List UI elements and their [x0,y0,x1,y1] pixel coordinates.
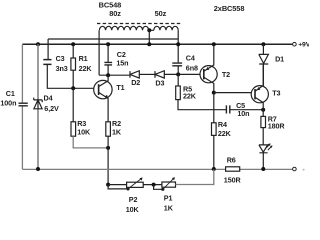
wire +9V top bus [22,43,292,45]
node R4 P1 bottom bus [212,167,216,171]
svg-text:T3: T3 [272,89,280,98]
svg-text:180R: 180R [268,121,286,130]
resistor R1 [71,44,92,88]
potentiometer P1 [162,177,176,212]
svg-text:22K: 22K [218,129,232,138]
svg-text:C1: C1 [6,89,15,98]
node center tap on bus [147,42,151,46]
svg-text:6n8: 6n8 [186,63,198,72]
wire center tap down to +9V bus [148,30,150,44]
terminal +9V [293,42,311,49]
svg-text:T1: T1 [116,83,124,92]
resistor R5 [176,74,197,100]
svg-text:2xBC558: 2xBC558 [214,4,245,13]
svg-text:1K: 1K [112,128,122,137]
LED [259,143,273,169]
node R3 R2 link [106,146,110,150]
node C4 R5 base junction [176,72,180,76]
wire bottom bus left segment [22,168,225,170]
svg-text:150R: 150R [224,175,242,184]
svg-text:D3: D3 [155,78,164,87]
svg-text:3n3: 3n3 [56,64,68,73]
wire C2 top [107,44,109,62]
wire bottom bus right segment [240,168,293,170]
node D4 top [36,42,40,46]
potentiometer P2 [126,177,144,214]
node winding junction [147,28,151,32]
svg-text:R6: R6 [227,156,236,165]
wire winding right end down to C4 [177,30,179,62]
svg-text:D4: D4 [44,93,53,102]
svg-text:P2: P2 [129,195,138,204]
svg-text:22K: 22K [183,92,197,101]
wire C3 bottom to base node [47,65,98,89]
wire feedback line B from C3 to right winding [48,38,178,40]
svg-text:1K: 1K [164,203,174,212]
node R1 top [71,42,75,46]
wire P2 right to P1 left [143,184,162,186]
wire P2 wiper link [108,185,130,191]
wire P1 right up to bus [176,169,214,184]
diode D1 [259,44,284,85]
zener diode D4 [34,93,59,112]
node T2 emitter on bus [212,42,216,46]
wire collector row [99,74,130,76]
node pot P2 left junction [106,183,110,187]
node D4 bottom [36,167,40,171]
wire T2 collector to T3 base [214,92,255,94]
diode D2 [130,71,140,88]
wire C3 top riser [47,39,49,59]
wire D4 branch vertical [37,44,39,169]
svg-text:R1: R1 [79,54,88,63]
node C2 top [106,42,110,46]
node LED bottom bus [261,167,265,171]
label BC548 [99,1,122,10]
label 50z [155,9,167,18]
wire pot node to P2 left [108,184,127,186]
resistor R2 [106,119,122,136]
wire D3 to T2 base [164,73,204,75]
node D1 top on bus [261,42,265,46]
svg-text:+9V: +9V [298,42,309,49]
wire R5 bottom to C5 [178,100,226,110]
capacitor C2 [104,50,128,68]
wire P1 wiper link [154,185,165,191]
resistor R6 [224,156,242,185]
node C5 T3 junction [261,108,265,112]
svg-text:C3: C3 [56,54,65,63]
transformer TR1 primary winding 80z [99,26,153,30]
wire C4 bottom [177,66,179,74]
svg-text:C4: C4 [186,53,195,62]
svg-text:D1: D1 [275,54,284,63]
wire C1 branch vertical [21,44,23,169]
resistor R3 [71,88,91,136]
svg-text:R4: R4 [218,120,227,129]
label 80z [109,9,121,18]
svg-text:6,2V: 6,2V [44,104,59,113]
resistor R4 [212,93,232,169]
svg-text:10n: 10n [237,109,249,118]
svg-text:10K: 10K [77,128,91,137]
wire C5 right to T3 emitter chain [230,109,263,111]
resistor R7 [261,110,285,145]
svg-text:22K: 22K [79,64,93,73]
capacitor C1 [0,89,27,107]
capacitor C4 [172,53,198,72]
transformer TR1 core [97,23,182,25]
svg-text:50z: 50z [155,9,167,18]
node P1 left junction [152,183,156,187]
node base junction [71,86,75,90]
wire R2 bottom down to pot node [107,136,109,184]
node T2 collector [212,91,216,95]
terminal 0V [293,167,305,171]
transistor T1 [94,75,125,121]
diode D3 [155,71,164,88]
label 2xBC558 [214,4,245,13]
svg-text:80z: 80z [109,9,121,18]
svg-text:10K: 10K [126,205,140,213]
capacitor C5 [226,101,249,118]
wire D2 to D3 [139,73,155,75]
transformer TR1 secondary winding 50z [154,26,178,30]
svg-text:D2: D2 [131,78,140,87]
svg-text:P1: P1 [164,194,173,203]
node collector C2 junction [106,73,110,77]
node C4 riser on bus [176,42,180,46]
capacitor C3 [43,54,67,73]
svg-text:T2: T2 [222,70,230,79]
wire R3 bottom link to R2 [73,136,108,148]
transistor T2 [200,44,230,92]
wire winding left end down to collector node [98,30,100,75]
wire C2 bottom [107,65,109,75]
transistor T3 [251,64,280,109]
svg-text:100n: 100n [0,99,16,108]
svg-text:15n: 15n [116,59,128,68]
